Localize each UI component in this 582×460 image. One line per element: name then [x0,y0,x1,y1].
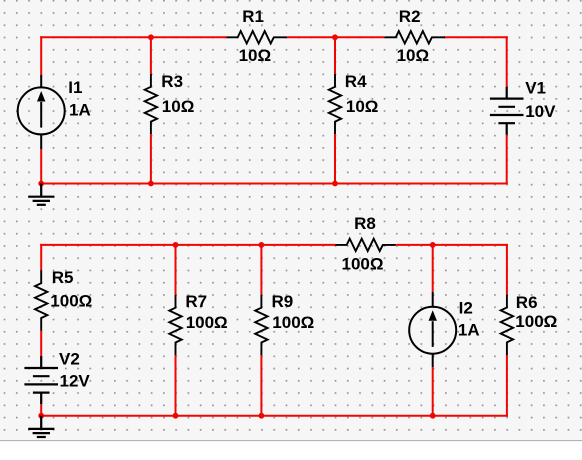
resistor R1 [227,31,287,43]
svg-text:R8: R8 [354,214,376,233]
svg-text:10Ω: 10Ω [162,97,195,116]
wire [40,404,42,417]
svg-text:R3: R3 [161,72,183,91]
svg-text:R6: R6 [516,293,538,312]
wire [396,244,508,246]
node junction ground bottom [38,413,44,419]
wire [506,244,508,295]
node junction ground left [38,181,44,187]
wire [175,355,177,416]
current source I1 [18,75,65,149]
resistor R6 [501,295,513,355]
wire [150,37,152,74]
node junction R9 top [259,242,265,248]
wire [506,135,508,185]
wire [40,36,42,75]
node junction R7 bottom [173,413,179,419]
wire [40,331,42,358]
svg-text:100Ω: 100Ω [50,292,92,311]
svg-text:R4: R4 [345,72,367,91]
resistor R2 [385,31,445,43]
wire [260,355,262,416]
resistor R4 [329,74,341,134]
svg-text:I1: I1 [68,78,82,97]
svg-text:1A: 1A [458,320,480,339]
wire [432,245,434,292]
node junction R4 top [332,34,338,40]
node junction R4 bottom [332,181,338,187]
node junction R3 bottom [148,181,154,187]
svg-text:100Ω: 100Ω [515,312,557,331]
svg-text:10Ω: 10Ω [346,97,379,116]
wire [40,183,508,185]
node junction I2 top [430,242,436,248]
svg-text:100Ω: 100Ω [186,313,228,332]
wire [175,245,177,295]
svg-text:100Ω: 100Ω [272,313,314,332]
svg-text:V1: V1 [525,78,546,97]
voltage source V1 [490,87,524,135]
wire [40,36,226,38]
svg-text:1A: 1A [69,100,91,119]
wire [40,415,508,417]
resistor R9 [255,295,267,355]
ground [28,416,54,437]
svg-text:10V: 10V [525,102,556,121]
resistor R7 [169,295,181,355]
node junction R7 top [173,242,179,248]
wire [506,355,508,417]
wire [506,36,508,87]
wire [432,367,434,416]
wire [334,134,336,183]
wire [40,244,335,246]
svg-text:10Ω: 10Ω [239,46,272,65]
resistor R3 [145,74,157,134]
svg-text:10Ω: 10Ω [397,46,430,65]
wire [260,245,262,295]
svg-text:R5: R5 [52,268,74,287]
svg-text:R2: R2 [399,7,421,26]
svg-text:R7: R7 [185,292,207,311]
wire [150,134,152,183]
svg-text:12V: 12V [60,371,91,390]
voltage source V2 [24,356,58,404]
svg-text:V2: V2 [59,349,80,368]
current source I2 [409,292,456,367]
wire [444,36,508,38]
wire [40,149,42,184]
resistor R5 [35,270,47,330]
node junction R9 bottom [259,413,265,419]
svg-text:R1: R1 [242,7,264,26]
wire [334,37,336,74]
svg-text:R9: R9 [272,292,294,311]
node junction R3 top [148,34,154,40]
resistor R8 [336,239,396,251]
svg-text:100Ω: 100Ω [342,254,384,273]
svg-text:I2: I2 [459,298,473,317]
ground [28,184,54,205]
wire [287,36,385,38]
node junction I2 bottom [430,413,436,419]
wire [40,244,42,270]
